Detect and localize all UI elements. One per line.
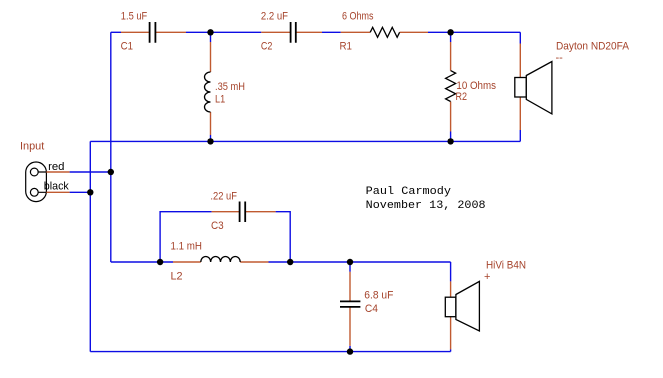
- node junction top R2: [447, 29, 453, 35]
- svg-text:.35 mH: .35 mH: [215, 81, 245, 93]
- svg-text:November 13, 2008: November 13, 2008: [366, 200, 486, 212]
- speaker LS2 woofer: [445, 281, 479, 349]
- svg-text:HiVi B4N: HiVi B4N: [486, 259, 526, 271]
- wire C4 top stub: [349, 262, 351, 272]
- svg-text:Dayton ND20FA: Dayton ND20FA: [556, 40, 630, 52]
- svg-text:6 Ohms: 6 Ohms: [342, 11, 374, 23]
- svg-text:C1: C1: [121, 41, 133, 53]
- node junction L2 left: [157, 259, 163, 265]
- connector J1 input: [26, 162, 70, 202]
- svg-text:R1: R1: [340, 41, 353, 53]
- capacitor C1: [121, 22, 186, 43]
- wire C3 left leg: [160, 212, 212, 262]
- node junction L2 right: [287, 259, 293, 265]
- wire R2 top stub: [450, 32, 452, 42]
- svg-text:6.8 uF: 6.8 uF: [364, 290, 393, 302]
- wire C3 right leg: [276, 212, 291, 262]
- wire red net vertical: [110, 32, 112, 262]
- wire woofer bottom rail: [90, 351, 450, 353]
- wire L1 top stub: [210, 32, 212, 42]
- wire red net to L2 branch: [111, 261, 173, 263]
- inductor L2: [173, 256, 269, 262]
- capacitor C3: [212, 202, 276, 223]
- svg-text:C2: C2: [261, 41, 273, 53]
- wire red input: [70, 171, 111, 173]
- wire R2 bottom stub: [450, 132, 452, 142]
- svg-text:C4: C4: [365, 303, 378, 315]
- svg-text:C3: C3: [211, 220, 224, 232]
- svg-text:+: +: [484, 271, 490, 283]
- node junction C4 bottom: [347, 348, 353, 354]
- wire tweeter vertical top stub: [519, 32, 521, 43]
- svg-text:--: --: [556, 52, 564, 64]
- svg-text:L1: L1: [215, 93, 225, 105]
- svg-text:10 Ohms: 10 Ohms: [456, 80, 496, 92]
- svg-text:1.1 mH: 1.1 mH: [171, 240, 203, 252]
- svg-text:R2: R2: [456, 91, 468, 103]
- inductor L1: [205, 42, 211, 135]
- svg-text:.22 uF: .22 uF: [210, 191, 237, 203]
- wire L2 to woofer: [269, 261, 451, 263]
- wire tweeter bottom rail: [90, 140, 520, 142]
- wire top rail C1 to C2: [186, 31, 261, 33]
- wire top rail stub left (node A to C1): [111, 31, 121, 33]
- wire top rail R1 to tweeter: [428, 31, 520, 33]
- node junction C4 top: [347, 259, 353, 265]
- svg-text:black: black: [44, 181, 69, 193]
- svg-text:Input: Input: [20, 141, 44, 153]
- node junction black input: [87, 189, 93, 195]
- wire woofer vertical bottom stub: [450, 349, 452, 351]
- node junction top L1: [207, 29, 213, 35]
- speaker LS1 tweeter: [515, 44, 552, 131]
- wire black input: [70, 191, 91, 193]
- wire top rail C2 to R1: [322, 31, 341, 33]
- wire black net vertical: [89, 141, 91, 351]
- svg-text:Paul Carmody: Paul Carmody: [366, 186, 452, 198]
- svg-text:2.2 uF: 2.2 uF: [261, 10, 288, 22]
- wire woofer vertical top stub: [450, 262, 452, 281]
- node junction red input: [108, 169, 114, 175]
- node junction bottom R2: [447, 138, 453, 144]
- svg-text:red: red: [48, 161, 64, 173]
- resistor R1: [341, 27, 428, 37]
- resistor R2: [446, 42, 456, 132]
- wire C4 bottom stub: [349, 346, 351, 352]
- wire tweeter vertical bottom stub: [519, 130, 521, 141]
- capacitor C2: [261, 22, 322, 43]
- wire L1 bottom stub: [210, 135, 212, 141]
- node junction bottom L1: [207, 138, 213, 144]
- svg-text:1.5 uF: 1.5 uF: [121, 10, 148, 22]
- capacitor C4: [340, 272, 360, 346]
- svg-text:L2: L2: [171, 270, 183, 282]
